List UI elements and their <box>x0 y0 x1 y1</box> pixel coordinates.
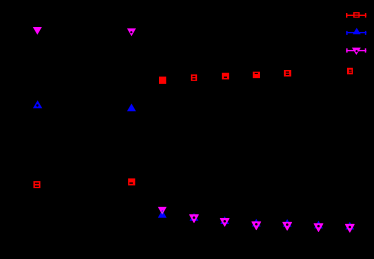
data pair P1: magenta down-triangle and blue up-triangle <box>158 207 167 218</box>
data pair P6: magenta down-triangle and blue up-triangle <box>314 221 323 232</box>
red square marker R3 <box>159 77 166 84</box>
magenta down-triangle marker M1 <box>33 27 42 35</box>
legend entry 1: red errorbar line <box>346 12 366 18</box>
data pair P3: magenta down-triangle and blue up-triangle <box>220 216 229 226</box>
red square marker R7 with error-bar cap <box>284 70 291 77</box>
magenta down-triangle marker M2 <box>127 28 136 36</box>
legend entry 2: blue errorbar line with up-triangle <box>346 28 366 35</box>
data pair P2: magenta down-triangle and blue up-triangle <box>190 213 199 223</box>
red square marker R4 with error-bar caps <box>191 74 197 81</box>
blue up-triangle marker B1 <box>33 100 42 108</box>
red square marker R5 with error-bar cap <box>222 73 229 80</box>
legend entry 4: red square marker with caps <box>347 68 353 75</box>
red square marker R1 with error-bar caps <box>33 181 40 188</box>
data pair P5: magenta down-triangle and blue up-triangle <box>283 219 292 230</box>
blue up-triangle marker B2 <box>127 104 136 112</box>
data pair P4: magenta down-triangle and blue up-triangle <box>252 219 261 230</box>
legend entry 3: magenta errorbar line with down-triangle <box>346 48 366 55</box>
red square marker R6 with error-bar cap <box>253 72 260 78</box>
data pair P7: magenta down-triangle and blue up-triangle <box>345 222 354 232</box>
red square marker R2 with error-bar cap <box>128 178 135 185</box>
